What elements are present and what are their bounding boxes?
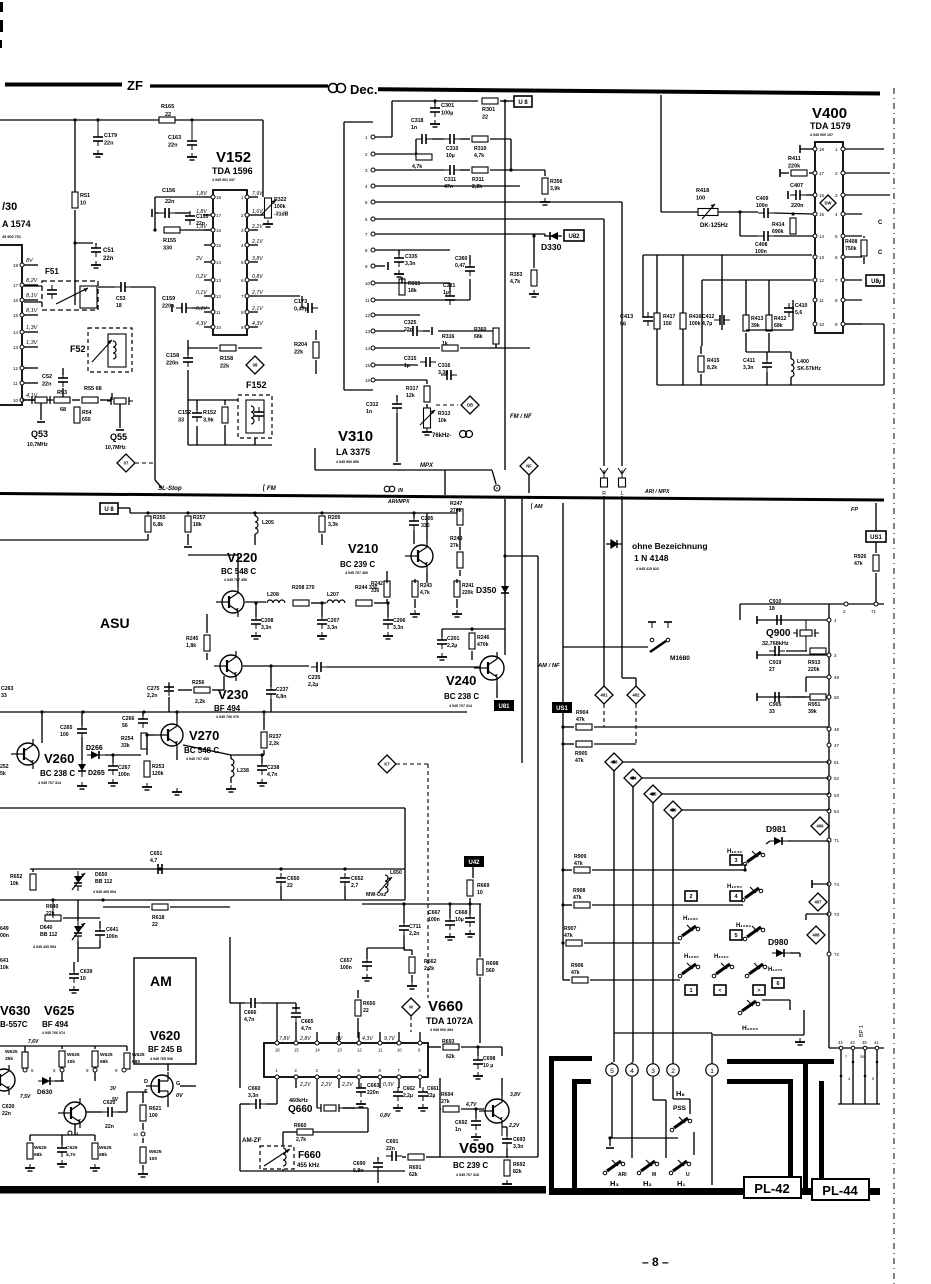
pin xyxy=(378,1041,382,1045)
resistor R208 xyxy=(293,600,309,606)
H2 label xyxy=(643,1179,652,1188)
V660 type xyxy=(426,1016,474,1026)
svg-text:49: 49 xyxy=(834,675,840,680)
svg-text:R621: R621 xyxy=(149,1106,162,1112)
transistor V210 xyxy=(405,541,433,571)
svg-text:10: 10 xyxy=(365,281,371,286)
svg-text:C265: C265 xyxy=(60,725,73,731)
svg-text:C158: C158 xyxy=(166,353,179,359)
wire xyxy=(254,438,256,445)
wire xyxy=(155,480,162,488)
R322 label xyxy=(274,197,289,217)
ground xyxy=(529,290,539,297)
bus pin 72 xyxy=(827,952,831,956)
svg-text:BC 238 C: BC 238 C xyxy=(444,692,479,701)
switch H1030 xyxy=(678,925,700,940)
C620 label xyxy=(103,1100,116,1106)
svg-text:6: 6 xyxy=(776,981,779,987)
net CD IN label xyxy=(384,486,403,494)
svg-text:R204: R204 xyxy=(294,342,308,348)
R205 label xyxy=(328,515,341,528)
svg-text:L207: L207 xyxy=(327,592,339,598)
wire xyxy=(377,1157,379,1160)
wire xyxy=(799,953,801,957)
svg-text:47n: 47n xyxy=(444,184,453,190)
pin xyxy=(357,1041,361,1045)
wire xyxy=(660,95,662,212)
junction xyxy=(651,792,654,795)
R237 label xyxy=(269,734,282,747)
wire xyxy=(375,249,450,251)
wire xyxy=(81,712,83,726)
svg-text:2,2V: 2,2V xyxy=(320,1082,332,1088)
R693 label xyxy=(442,1039,455,1045)
svg-text:68k: 68k xyxy=(34,1152,42,1158)
svg-text:22k: 22k xyxy=(220,364,230,370)
net label kgt xyxy=(753,985,765,995)
svg-text:R360: R360 xyxy=(474,327,487,333)
svg-text:22n: 22n xyxy=(103,256,114,262)
wire xyxy=(379,1032,381,1041)
wire xyxy=(147,534,149,540)
wire xyxy=(840,1050,842,1104)
svg-text:ARI: ARI xyxy=(618,1172,627,1178)
wire xyxy=(829,1047,884,1049)
capacitor C51 xyxy=(91,243,101,257)
svg-text:Dec.: Dec. xyxy=(350,82,377,97)
svg-text:649: 649 xyxy=(0,926,9,932)
capacitor C206 xyxy=(383,615,393,629)
svg-text:R356: R356 xyxy=(550,179,563,185)
pin 2 xyxy=(844,602,848,606)
svg-text:22n: 22n xyxy=(404,327,413,333)
ground xyxy=(437,653,447,660)
wire xyxy=(682,809,829,811)
capacitor C411 xyxy=(762,358,772,372)
wire xyxy=(254,534,256,545)
svg-text:13: 13 xyxy=(819,255,825,260)
C625 label xyxy=(66,1145,78,1158)
wire xyxy=(419,1032,421,1041)
svg-text:C163: C163 xyxy=(168,135,181,141)
capacitor C665 xyxy=(291,1008,301,1022)
svg-text:2,2n: 2,2n xyxy=(147,693,157,699)
wire xyxy=(740,603,884,605)
svg-text:V660: V660 xyxy=(428,998,463,1015)
pin xyxy=(23,1068,34,1073)
svg-text:220n: 220n xyxy=(367,1090,379,1096)
resistor R242 xyxy=(384,581,390,597)
wire xyxy=(412,512,460,514)
wire xyxy=(442,628,472,630)
ground xyxy=(25,1164,35,1171)
svg-text:5: 5 xyxy=(365,200,368,205)
Q55 freq xyxy=(105,445,126,451)
filter AM-ZF F660 xyxy=(260,1146,294,1169)
resistor W625 680 xyxy=(124,1053,130,1069)
wire xyxy=(119,404,121,428)
C407 value xyxy=(791,203,804,209)
capacitor C235 xyxy=(311,662,327,672)
ground xyxy=(410,610,420,617)
resistor R152 xyxy=(222,407,228,423)
wire xyxy=(479,904,481,957)
svg-text:17: 17 xyxy=(216,213,222,218)
pin xyxy=(241,228,249,233)
wire xyxy=(613,771,615,1062)
capacitor C267 xyxy=(108,761,118,775)
svg-text:2: 2 xyxy=(295,1068,298,1073)
svg-text:C663: C663 xyxy=(367,1083,380,1089)
wire xyxy=(231,754,264,756)
svg-text:BC 239 C: BC 239 C xyxy=(453,1161,488,1170)
svg-text:L650: L650 xyxy=(390,870,402,876)
wire xyxy=(204,279,211,281)
filter F152 inner xyxy=(246,400,264,433)
capacitor C360 xyxy=(465,262,475,276)
svg-text:455 kHz: 455 kHz xyxy=(297,1163,319,1169)
C310 label xyxy=(446,146,459,159)
wire xyxy=(631,1080,633,1158)
svg-text:8V: 8V xyxy=(336,1036,343,1042)
wire xyxy=(240,1103,250,1105)
wire xyxy=(239,1104,241,1171)
Q55 label xyxy=(110,432,127,442)
svg-text:U82: U82 xyxy=(568,234,580,240)
bus pin 54 xyxy=(827,809,831,813)
wire xyxy=(29,1135,31,1141)
R662 label xyxy=(424,959,437,972)
capacitor C692 xyxy=(471,1116,481,1130)
svg-text:A 1574: A 1574 xyxy=(2,219,31,229)
svg-text:6,8k: 6,8k xyxy=(153,522,163,528)
wire xyxy=(154,197,156,230)
wire xyxy=(204,214,211,216)
resistor R247 xyxy=(457,509,463,525)
svg-text:11: 11 xyxy=(13,381,18,386)
wire xyxy=(261,1002,296,1004)
svg-text:V240: V240 xyxy=(446,673,476,688)
wire xyxy=(862,172,890,174)
svg-text:4,3V: 4,3V xyxy=(196,321,207,327)
connector pin 4 xyxy=(626,1064,638,1076)
C667 label xyxy=(428,910,441,923)
capacitor C201 xyxy=(437,635,447,649)
svg-text:C206: C206 xyxy=(393,618,406,624)
svg-text:4,7n: 4,7n xyxy=(267,772,277,778)
svg-text:68k: 68k xyxy=(99,1152,107,1158)
svg-text:4 945 415 822: 4 945 415 822 xyxy=(636,567,659,571)
R241 label xyxy=(462,583,474,596)
svg-text:74: 74 xyxy=(834,882,840,887)
svg-text:7,6V: 7,6V xyxy=(28,1039,39,1045)
svg-text:D265: D265 xyxy=(88,770,105,777)
svg-text:252: 252 xyxy=(0,764,9,770)
svg-text:R246: R246 xyxy=(477,635,490,641)
wire xyxy=(611,1080,613,1138)
wire xyxy=(270,666,272,687)
svg-text:270k: 270k xyxy=(450,508,462,514)
wire xyxy=(478,1046,502,1048)
wire xyxy=(490,169,545,171)
svg-text:1 N 4148: 1 N 4148 xyxy=(634,553,669,563)
wire xyxy=(521,499,523,763)
svg-text:C201: C201 xyxy=(447,636,460,642)
wire xyxy=(495,344,497,348)
capacitor C666 xyxy=(245,998,261,1008)
wire xyxy=(170,906,230,908)
svg-text:47k: 47k xyxy=(854,561,863,567)
svg-text:100n: 100n xyxy=(755,249,767,255)
wire xyxy=(131,286,155,288)
capacitor C663 xyxy=(356,1083,366,1097)
R248 label xyxy=(450,536,463,549)
pin xyxy=(13,283,24,288)
svg-text:R254: R254 xyxy=(121,736,134,742)
symbol 409 xyxy=(811,817,829,835)
M small xyxy=(652,1172,656,1178)
svg-text:C411: C411 xyxy=(743,358,755,364)
svg-text:SK-57kHz: SK-57kHz xyxy=(797,366,821,372)
svg-text:1,8k: 1,8k xyxy=(186,643,196,649)
ground xyxy=(422,428,432,435)
wire xyxy=(343,1107,355,1109)
svg-text:C237: C237 xyxy=(276,687,289,693)
junction xyxy=(402,902,405,905)
capacitor C316 xyxy=(441,370,457,380)
wire xyxy=(204,311,211,313)
svg-text:47k: 47k xyxy=(564,933,573,939)
wire xyxy=(471,651,473,660)
wire xyxy=(295,1022,297,1032)
svg-text:11: 11 xyxy=(378,1048,383,1053)
C698 label xyxy=(483,1056,496,1069)
H1060 label xyxy=(736,923,751,929)
wire xyxy=(506,1148,508,1158)
svg-text:C263: C263 xyxy=(1,686,14,692)
wire xyxy=(788,840,829,842)
svg-text:54: 54 xyxy=(834,809,840,814)
wire xyxy=(105,754,141,756)
svg-text:71: 71 xyxy=(834,838,840,843)
wire xyxy=(230,755,232,759)
wire xyxy=(614,1032,712,1034)
svg-text:ASU: ASU xyxy=(100,615,130,631)
svg-text:H₁₀₀₀: H₁₀₀₀ xyxy=(742,1025,758,1032)
capacitor C335 xyxy=(394,253,404,267)
wire xyxy=(111,393,113,400)
junction xyxy=(791,212,794,215)
wire xyxy=(592,869,745,871)
wire xyxy=(441,629,443,637)
connector label PL-44 xyxy=(812,1179,869,1200)
svg-text:22: 22 xyxy=(287,883,293,889)
svg-text:15: 15 xyxy=(819,212,825,217)
wire xyxy=(419,1079,421,1088)
wire xyxy=(603,704,605,727)
filter F52 inner xyxy=(108,334,126,367)
svg-text:ohne Bezeichnung: ohne Bezeichnung xyxy=(632,541,708,551)
svg-text:TDA 1072A: TDA 1072A xyxy=(426,1016,474,1026)
svg-text:U81: U81 xyxy=(498,704,510,710)
wire xyxy=(875,573,877,604)
svg-text:1n: 1n xyxy=(411,125,417,131)
svg-text:C652: C652 xyxy=(351,876,364,882)
pin xyxy=(13,263,24,268)
svg-text:3,3n: 3,3n xyxy=(513,1144,523,1150)
wire xyxy=(711,1033,713,1062)
pin xyxy=(294,1041,298,1045)
wire xyxy=(789,1000,791,1010)
svg-text:100: 100 xyxy=(149,1156,157,1162)
wire xyxy=(592,869,745,871)
transistor V220 xyxy=(216,587,244,617)
wire xyxy=(204,196,211,198)
wire xyxy=(223,676,225,690)
svg-text:-31dB: -31dB xyxy=(274,211,289,217)
wire xyxy=(392,100,478,102)
R640 label xyxy=(46,904,59,917)
junction xyxy=(561,742,564,745)
symbol 07 xyxy=(117,454,135,472)
svg-text:47k: 47k xyxy=(571,970,580,976)
junction xyxy=(470,627,473,630)
svg-text:C641: C641 xyxy=(106,927,119,933)
svg-text:0,2V: 0,2V xyxy=(196,274,207,280)
net ARI/MPX xyxy=(644,489,670,495)
C711 label xyxy=(409,924,421,937)
R55 label xyxy=(84,386,102,392)
svg-text:B-557C: B-557C xyxy=(0,1020,28,1029)
svg-text:16: 16 xyxy=(365,378,371,383)
inductor F152 coil xyxy=(251,406,254,424)
diode D330 xyxy=(544,232,562,240)
wire xyxy=(631,1062,633,1064)
wire xyxy=(258,295,300,297)
svg-text:C52: C52 xyxy=(42,374,52,380)
svg-text:330: 330 xyxy=(371,588,380,594)
svg-text:R353: R353 xyxy=(510,272,523,278)
V660 part number xyxy=(430,1028,453,1032)
wire xyxy=(744,864,746,870)
svg-text:14: 14 xyxy=(819,234,825,239)
svg-text:3V: 3V xyxy=(110,1086,117,1092)
U small xyxy=(686,1172,690,1178)
C237 label xyxy=(276,687,289,700)
svg-text:NF: NF xyxy=(526,464,532,469)
svg-text:C301: C301 xyxy=(441,103,454,109)
H1070 label xyxy=(768,967,783,973)
svg-text:4: 4 xyxy=(365,184,368,189)
pin xyxy=(337,1075,341,1079)
bus pin 47 xyxy=(827,743,831,747)
V label xyxy=(878,280,882,286)
junction xyxy=(101,898,104,901)
wire xyxy=(673,1098,690,1100)
symbol DB xyxy=(461,396,479,414)
R257 label xyxy=(193,515,206,528)
wire xyxy=(377,1172,379,1183)
resistor R155 xyxy=(164,227,180,233)
R243 label xyxy=(420,583,432,596)
pin xyxy=(397,1075,401,1079)
junction xyxy=(111,753,114,756)
svg-text:220n: 220n xyxy=(791,203,804,209)
svg-text:9: 9 xyxy=(115,1068,118,1073)
svg-text:C53: C53 xyxy=(116,296,126,302)
wire xyxy=(460,347,530,349)
svg-text:4: 4 xyxy=(835,212,838,217)
transistor V690 xyxy=(479,1095,509,1127)
svg-text:6,8n: 6,8n xyxy=(276,694,286,700)
svg-text:4: 4 xyxy=(630,1068,634,1075)
junction xyxy=(142,710,145,713)
wire xyxy=(396,413,398,462)
resistor R412 xyxy=(766,315,772,331)
svg-text:10,7MHz: 10,7MHz xyxy=(27,442,48,448)
wire xyxy=(610,1137,678,1139)
net IL FM xyxy=(262,484,277,492)
svg-text:Q55: Q55 xyxy=(110,432,127,442)
wire xyxy=(230,777,232,783)
svg-text:2: 2 xyxy=(365,152,368,157)
wire xyxy=(249,214,258,216)
R693 value xyxy=(446,1054,455,1060)
resistor R904 xyxy=(576,724,592,730)
pin xyxy=(841,298,845,302)
svg-text:8,1V: 8,1V xyxy=(26,308,39,314)
wire xyxy=(77,941,79,962)
svg-text:V270: V270 xyxy=(189,728,219,743)
svg-text:C321: C321 xyxy=(443,283,456,289)
wire xyxy=(623,761,829,763)
symbol M xyxy=(402,998,420,1016)
junction xyxy=(448,902,451,905)
ground xyxy=(452,610,462,617)
V620 D xyxy=(144,1079,148,1085)
svg-text:1,8V: 1,8V xyxy=(196,191,207,197)
transistor V625b xyxy=(58,1098,86,1128)
svg-text:US1: US1 xyxy=(870,535,882,541)
R408 label xyxy=(845,239,858,252)
svg-text:AM: AM xyxy=(150,973,172,989)
wire xyxy=(472,867,474,878)
terminal bar xyxy=(37,421,45,423)
wire xyxy=(386,579,388,583)
resistor R317 xyxy=(424,386,430,402)
page border xyxy=(893,88,895,1284)
ground xyxy=(502,1180,512,1187)
pin xyxy=(365,298,375,303)
svg-text:1k: 1k xyxy=(442,341,448,347)
svg-text:L: L xyxy=(621,491,624,497)
svg-text:11: 11 xyxy=(216,310,221,315)
capacitor C152 xyxy=(192,408,202,422)
svg-text:D650: D650 xyxy=(95,872,108,878)
wire xyxy=(757,619,829,621)
terminal bar xyxy=(171,304,173,312)
C label xyxy=(878,220,883,226)
svg-text:C660: C660 xyxy=(248,1086,261,1092)
pin xyxy=(241,294,249,299)
V620 S xyxy=(144,1089,148,1095)
junction xyxy=(414,152,417,155)
svg-text:R904: R904 xyxy=(576,710,589,716)
wire xyxy=(283,1131,297,1133)
svg-text:2,2n: 2,2n xyxy=(409,931,419,937)
resistor R417 xyxy=(654,313,660,329)
svg-text:0,8V: 0,8V xyxy=(252,274,263,280)
